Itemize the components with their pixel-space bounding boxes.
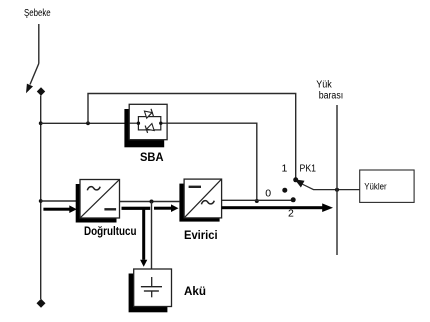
junction battery tap	[150, 200, 154, 204]
junction SBA drop on inverter output	[255, 199, 259, 203]
SBA block shadow	[124, 109, 164, 147]
svg-text:Doğrultucu: Doğrultucu	[84, 226, 137, 238]
junction mains-rectifier tap	[39, 199, 43, 203]
battery block shadow	[129, 274, 168, 313]
rectifier AC/DC symbol	[81, 180, 119, 217]
wire mains vertical	[40, 96, 42, 300]
wire SBA input	[41, 122, 130, 124]
svg-text:0: 0	[265, 188, 271, 200]
battery block	[134, 269, 172, 307]
svg-text:Akü: Akü	[184, 284, 206, 298]
svg-text:SBA: SBA	[140, 150, 164, 164]
inverter block shadow	[179, 184, 219, 222]
wire rectifier input	[41, 200, 78, 202]
contact dot 1	[293, 177, 298, 182]
label Yük barası	[316, 80, 343, 102]
wire mains lead	[38, 24, 40, 64]
SBA block	[129, 104, 167, 139]
inverter block	[184, 179, 222, 218]
junction mains-SBA tap	[39, 121, 43, 125]
rectifier block	[80, 180, 120, 219]
mains disconnect switch blade	[26, 64, 39, 94]
loads box Yükler	[360, 170, 414, 202]
SBA anti-parallel diode pair	[129, 109, 167, 133]
svg-text:Yük: Yük	[316, 80, 332, 91]
wire rectifier to inverter	[120, 201, 180, 203]
junction bypass tap	[86, 121, 90, 125]
power arrow mains to rectifier	[43, 205, 76, 213]
svg-text:1: 1	[282, 163, 288, 175]
junction load bus	[335, 188, 339, 192]
svg-text:Evirici: Evirici	[184, 230, 218, 242]
wire battery lead	[151, 202, 153, 270]
contact dot 0	[282, 188, 287, 193]
inverter DC/AC symbol	[185, 180, 221, 218]
svg-text:Yükler: Yükler	[364, 182, 386, 192]
power arrow dc to inverter	[154, 204, 179, 212]
terminal diamond mains bottom	[37, 299, 46, 308]
svg-text:barası: barası	[319, 90, 344, 101]
switch PK1 blade	[295, 179, 360, 189]
contact dot 2	[291, 197, 296, 202]
wire SBA output to node 0 line	[167, 123, 257, 201]
terminal diamond mains top	[37, 87, 45, 95]
power bar rectifier output	[122, 207, 151, 210]
load bus wire	[336, 105, 338, 255]
svg-text:2: 2	[288, 207, 294, 219]
svg-text:PK1: PK1	[300, 163, 317, 174]
wire inverter output to contact 2	[222, 199, 294, 201]
power arrow inverter to load bus	[222, 203, 333, 212]
power arrow charge to battery	[140, 207, 147, 267]
wire bypass line to contact 1	[88, 94, 296, 180]
svg-text:Şebeke: Şebeke	[24, 8, 51, 19]
rectifier block shadow	[76, 184, 117, 223]
battery symbol	[141, 277, 162, 297]
